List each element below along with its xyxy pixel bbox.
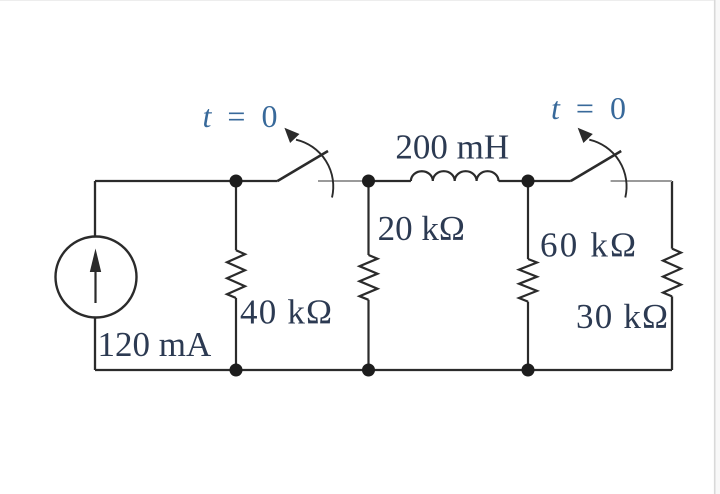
resistor 30 kOhm body	[663, 249, 681, 297]
node junction dot top-left	[230, 175, 243, 188]
wire left vertical upper	[94, 181, 96, 237]
svg-text:30 kΩ: 30 kΩ	[576, 297, 669, 336]
switch SW2 fixed contact (grey)	[611, 180, 672, 182]
switch SW1 blade	[278, 151, 329, 181]
inductor 200 mH body	[411, 171, 499, 181]
svg-text:120 mA: 120 mA	[98, 325, 212, 364]
switch SW2 motion arc	[589, 140, 626, 198]
wire dot1 to switch1 hinge	[236, 180, 278, 182]
current source I1 arrow	[90, 249, 101, 304]
switch SW1 motion arc	[296, 140, 333, 198]
wire top-left horizontal	[95, 180, 236, 182]
resistor 20 kOhm body	[360, 181, 378, 370]
page top hairline	[0, 0, 714, 2]
current source I1 circle	[56, 237, 137, 318]
node junction dot top-right	[522, 175, 535, 188]
wire left vertical lower	[94, 318, 96, 371]
svg-text:200 mH: 200 mH	[395, 127, 509, 166]
wire inductor right to dot3	[499, 180, 529, 182]
resistor 60 kOhm body	[519, 181, 537, 370]
svg-text:20 kΩ: 20 kΩ	[378, 209, 465, 248]
svg-text:60 kΩ: 60 kΩ	[540, 226, 638, 265]
node junction dot top-middle	[362, 175, 375, 188]
wire bottom horizontal	[95, 369, 672, 371]
node junction dot bottom-left	[230, 364, 243, 377]
wire right vertical lower	[671, 296, 673, 370]
svg-text:40 kΩ: 40 kΩ	[240, 293, 333, 332]
switch SW1 arrowhead	[284, 128, 299, 143]
node junction dot bottom-right	[522, 364, 535, 377]
wire dot3 to switch2 hinge	[528, 180, 571, 182]
switch SW2 blade	[571, 151, 621, 181]
node junction dot bottom-middle	[362, 364, 375, 377]
resistor 40 kOhm body	[227, 181, 245, 370]
page right gutter band	[715, 0, 720, 494]
svg-text:t = 0: t = 0	[203, 98, 282, 134]
wire dot2 to inductor left	[369, 180, 411, 182]
switch SW1 fixed contact (grey)	[318, 180, 369, 182]
svg-text:t = 0: t = 0	[551, 90, 630, 126]
wire right vertical upper	[671, 181, 673, 249]
switch SW2 arrowhead	[578, 128, 593, 143]
